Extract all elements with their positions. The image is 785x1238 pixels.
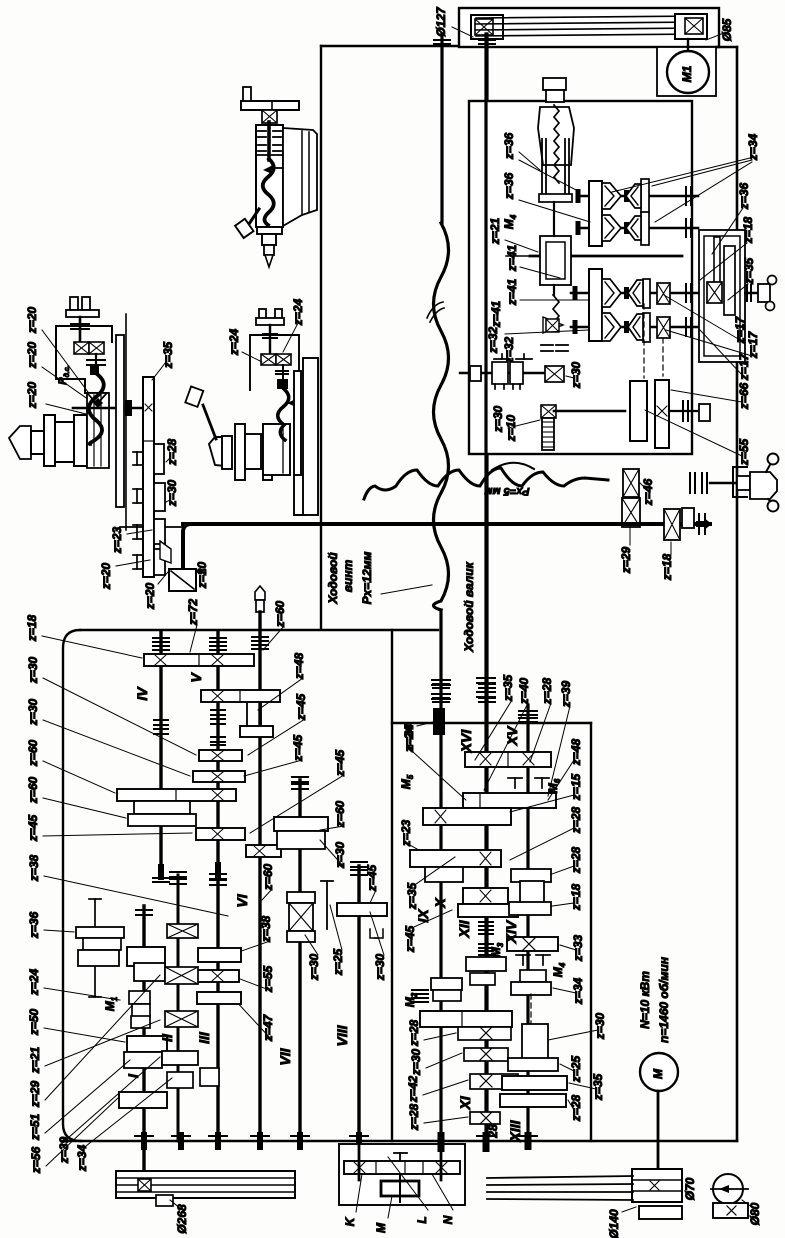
svg-text:z=45: z=45 [291, 734, 305, 762]
head2 worm squiggle overlay [278, 389, 289, 440]
svg-text:z=24: z=24 [27, 968, 41, 996]
gear z28 with bearing [133, 451, 142, 453]
lead screw wavy section [434, 223, 449, 610]
clutch X on VII [287, 892, 315, 903]
pulley d70 [632, 1169, 682, 1202]
gear bars XI with X [458, 1027, 511, 1040]
fork crossbar [539, 194, 572, 202]
M2 cluster IX [431, 978, 462, 990]
gear z34 XV [520, 970, 546, 982]
apron gears [714, 237, 720, 283]
svg-text:XI: XI [457, 1095, 473, 1110]
svg-text:z=36: z=36 [502, 172, 516, 200]
svg-text:n=1460 об/мин: n=1460 об/мин [657, 956, 671, 1043]
tool head base plate [257, 227, 282, 234]
svg-text:z=35: z=35 [591, 1073, 605, 1101]
svg-text:z=28: z=28 [569, 806, 583, 834]
motor M1 shaft [687, 39, 689, 51]
svg-text:N: N [441, 1215, 455, 1224]
shaft IX into apron [440, 1141, 443, 1180]
svg-text:z=30: z=30 [593, 1012, 607, 1040]
speed gearbox rounded frame [80, 629, 438, 631]
z55 z66 shaft right [669, 410, 697, 412]
svg-text:z=20: z=20 [99, 562, 113, 590]
svg-text:XII: XII [456, 919, 472, 938]
gear z35 XIII [502, 1076, 567, 1090]
gear z25 XIII [508, 1058, 558, 1071]
svg-text:z=23: z=23 [399, 819, 413, 847]
blob XVI below [483, 1132, 490, 1152]
svg-text:z=34: z=34 [746, 133, 760, 161]
lead screw top end bearing [434, 39, 450, 41]
lead screw lower section / shaft IX [439, 610, 442, 1172]
svg-text:z=29: z=29 [619, 546, 633, 574]
gear bar5 wide IV-V [117, 789, 236, 801]
svg-text:z=38: z=38 [259, 915, 273, 943]
svg-text:z=60: z=60 [273, 600, 287, 628]
svg-text:z=33: z=33 [571, 934, 585, 962]
svg-text:II: II [159, 1033, 175, 1042]
spindle spring zigzag [554, 105, 559, 183]
shaft VII [292, 776, 308, 778]
gear z55 tall [630, 381, 647, 441]
step blocks IV [134, 801, 190, 814]
svg-text:z=18: z=18 [660, 553, 674, 581]
tall block XIII [522, 1024, 548, 1059]
gear bar6 V [196, 828, 245, 840]
tool head body [256, 125, 283, 227]
clutch A left half with bar [641, 179, 649, 213]
svg-text:z=29: z=29 [28, 1080, 42, 1108]
svg-text:z=21: z=21 [28, 1046, 42, 1074]
feed rod [479, 39, 495, 41]
blob XV below [525, 1132, 532, 1150]
step blocks IX [425, 867, 463, 882]
svg-text:M1: M1 [680, 65, 694, 82]
spindle cone [9, 426, 31, 459]
wide bar below [458, 904, 518, 917]
pulley d85 [675, 14, 707, 39]
tool head side handle [249, 209, 259, 224]
svg-text:z=28: z=28 [407, 1019, 421, 1047]
gear bar z72 on IV-V [144, 654, 254, 666]
shaft XV [519, 710, 537, 712]
long gear block bar upper [589, 181, 602, 246]
KMLN bold block [381, 1181, 419, 1196]
shaft V / III [216, 632, 219, 1141]
svg-text:z=32: z=32 [486, 326, 500, 354]
shaft II clutch gears [167, 924, 198, 938]
shaft XVI [484, 34, 487, 1141]
tool head clutch rows [258, 130, 266, 132]
machine outline bottom edge [63, 1140, 737, 1143]
shaft III gear cluster [198, 948, 241, 962]
KMLN gear bar [344, 1161, 460, 1174]
KMLN tee [394, 1152, 407, 1154]
svg-text:z=28: z=28 [569, 846, 583, 874]
svg-text:N=10 кВт: N=10 кВт [638, 971, 652, 1029]
worm squiggle [89, 374, 104, 444]
svg-text:z=47: z=47 [261, 1013, 275, 1042]
z48 block [246, 702, 248, 726]
head2 lever [203, 405, 216, 439]
head2 right plate [294, 371, 301, 475]
svg-text:M: M [374, 1222, 388, 1233]
svg-text:z=45: z=45 [365, 864, 379, 892]
stem below clutch [95, 354, 97, 372]
head2 worm squiggle [278, 389, 289, 440]
spindle flange stack [31, 431, 44, 454]
svg-text:z=36: z=36 [737, 182, 751, 210]
svg-text:z=35: z=35 [501, 674, 515, 702]
tool head screw shaft [267, 122, 271, 160]
bevel box z20 bottom [169, 569, 196, 591]
svg-text:z=15: z=15 [569, 773, 583, 801]
svg-text:z=60: z=60 [261, 863, 275, 891]
gear bar z45 IX [410, 850, 501, 867]
svg-text:z=55: z=55 [737, 438, 751, 466]
head2 stem [269, 325, 271, 355]
head2 frame [250, 335, 299, 390]
svg-text:X: X [432, 897, 448, 909]
bearings above z24 [433, 683, 449, 685]
svg-text:z=34: z=34 [75, 1144, 89, 1172]
rack bar [116, 335, 124, 507]
tool head clutch X [262, 110, 277, 123]
bottom bearing blobs [141, 1132, 147, 1150]
svg-text:z=30: z=30 [333, 841, 347, 869]
svg-text:VIII: VIII [334, 1024, 350, 1046]
wide bar XI [420, 1011, 512, 1027]
svg-text:z=10: z=10 [504, 414, 518, 442]
svg-text:z=20: z=20 [143, 582, 157, 610]
blob IX at line [438, 1132, 445, 1152]
lead screw break mark [427, 302, 443, 318]
svg-text:Ходовой: Ходовой [326, 552, 340, 605]
svg-text:z=24: z=24 [291, 298, 305, 326]
clutch D left half [643, 313, 650, 342]
gears on IX [423, 808, 511, 825]
cross shaft wavy [364, 468, 608, 499]
rack z35 bar [143, 377, 154, 577]
shaft II [170, 871, 186, 873]
head2 base plate [263, 424, 290, 475]
svg-text:z=66: z=66 [737, 382, 751, 410]
svg-text:z=30: z=30 [409, 1048, 423, 1076]
label z30 z10 leaders [508, 420, 540, 428]
head2 bracket [259, 309, 266, 319]
shaft VIII into apron [358, 1141, 361, 1180]
motor M circle [640, 1053, 678, 1091]
gear z29 [622, 498, 640, 527]
spring zigzag lower [553, 295, 559, 323]
motor M shaft [657, 1091, 660, 1169]
svg-text:z=38: z=38 [27, 854, 41, 882]
gear bar z45 on VIII [337, 903, 387, 916]
shaft VIII [351, 861, 367, 863]
gear z30 with bearing [133, 488, 142, 490]
svg-text:z=30: z=30 [569, 361, 583, 389]
worm output shaft [554, 410, 625, 413]
motor M1 frame [657, 47, 716, 96]
svg-text:Pх=5 мм: Pх=5 мм [484, 485, 529, 497]
svg-text:z=48: z=48 [292, 652, 306, 680]
clutch M6 [508, 777, 522, 779]
VI block z60 z30 [274, 817, 328, 831]
clutch B left half with bar [641, 212, 649, 245]
svg-text:III: III [196, 1031, 212, 1044]
svg-text:z=35: z=35 [405, 882, 419, 910]
svg-text:z=41: z=41 [505, 244, 519, 272]
svg-text:z=72: z=72 [186, 598, 200, 626]
black gear z24 on lead screw [433, 708, 445, 735]
svg-text:z=21: z=21 [488, 217, 502, 245]
svg-text:z=25: z=25 [331, 948, 345, 976]
shaft D [571, 326, 710, 329]
break arc on cross shaft [492, 463, 534, 470]
clutch B right half [602, 215, 621, 241]
clutch D right half [602, 313, 621, 341]
shaft B [578, 227, 698, 230]
svg-text:z=20: z=20 [25, 341, 39, 369]
svg-text:XIV: XIV [503, 919, 519, 944]
shaft I gear cluster [127, 947, 165, 966]
svg-text:z=41: z=41 [505, 278, 519, 306]
svg-text:IV: IV [134, 686, 150, 701]
machine outline left vertical [320, 46, 322, 629]
svg-text:z=60: z=60 [26, 739, 40, 767]
leader lines z36 fan [519, 152, 540, 170]
pulley d127 [471, 15, 503, 39]
belt lines [476, 16, 704, 18]
clutch housing left [540, 236, 571, 285]
z33 gear XV [507, 937, 558, 951]
spindle forks [541, 139, 543, 197]
double clutch XX [74, 342, 89, 354]
M4 clutch XV [516, 954, 530, 956]
shaft VI with cap [255, 586, 265, 600]
head2 black pinion [277, 379, 288, 389]
svg-text:z=39: z=39 [57, 1136, 71, 1164]
svg-text:z=36: z=36 [502, 132, 516, 160]
tool head handle bar [241, 101, 299, 110]
gear bar XVI-XV z40 z28 [465, 752, 551, 767]
clutch C left half [643, 279, 650, 308]
cross drive shaft to rack [73, 407, 148, 410]
svg-text:z=56: z=56 [29, 1146, 43, 1174]
belt to d140 [487, 1176, 633, 1178]
pulley d268 [116, 1171, 295, 1198]
headstock inner box [469, 101, 692, 454]
svg-text:z=20: z=20 [195, 561, 209, 589]
chain arrow [696, 518, 712, 530]
feed gearbox frame [391, 630, 393, 1141]
gear bar3 V [199, 750, 242, 761]
svg-text:z=30: z=30 [373, 953, 387, 981]
handwheel [689, 473, 691, 493]
svg-text:z=30: z=30 [26, 656, 40, 684]
svg-text:VII: VII [277, 1047, 293, 1065]
svg-text:винт: винт [341, 559, 355, 592]
svg-text:Pх=12мм: Pх=12мм [360, 551, 374, 604]
tool head wedge [283, 128, 317, 226]
tool head post [243, 87, 251, 101]
z36 idler cluster [94, 899, 96, 997]
svg-text:M: M [651, 1068, 665, 1079]
svg-text:z=35: z=35 [742, 257, 756, 285]
svg-text:Ø140: Ø140 [607, 1209, 621, 1238]
gear z30 XVI [463, 888, 508, 904]
head2 flange stack [222, 436, 232, 469]
svg-text:z=30: z=30 [307, 953, 321, 981]
gear bar below M6 [463, 793, 556, 808]
gear z66 tall [655, 380, 669, 448]
svg-text:Ø268: Ø268 [175, 1204, 189, 1234]
belt housing box top right [459, 8, 719, 47]
svg-text:z=48: z=48 [569, 738, 583, 766]
shaft C [571, 292, 758, 295]
svg-text:z=60: z=60 [26, 776, 40, 804]
bearings top IX XVI [432, 679, 450, 681]
svg-text:XIII: XIII [507, 1119, 523, 1142]
svg-text:VI: VI [234, 893, 250, 907]
svg-text:z=20: z=20 [25, 381, 39, 409]
K M L N apron box [339, 1144, 465, 1205]
clutch X on D [657, 317, 670, 338]
svg-text:z=51: z=51 [28, 1113, 42, 1141]
svg-text:z=18: z=18 [25, 614, 39, 642]
svg-text:z=39: z=39 [559, 680, 573, 708]
svg-text:z=46: z=46 [641, 478, 655, 506]
svg-text:z=28: z=28 [407, 1103, 421, 1131]
svg-text:z=28: z=28 [540, 677, 554, 705]
svg-text:Ø70: Ø70 [683, 1177, 697, 1200]
pulley d140 flange [639, 1206, 682, 1219]
top edge connector to right [716, 46, 737, 48]
cross shaft end bearing [698, 514, 700, 534]
detent wedge [160, 541, 171, 563]
svg-text:z=40: z=40 [517, 677, 531, 705]
shifter rod VII [326, 881, 328, 929]
svg-text:z=32: z=32 [502, 336, 516, 364]
gear z18 on cross shaft [664, 509, 680, 540]
svg-text:z=50: z=50 [27, 1008, 41, 1036]
svg-text:z=30: z=30 [26, 698, 40, 726]
worm z10 [541, 405, 556, 418]
svg-text:z=45: z=45 [294, 693, 308, 721]
svg-text:z=45: z=45 [403, 925, 417, 953]
clutch C right half [602, 279, 621, 307]
tension roller d80 [713, 1174, 743, 1204]
svg-text:z=20: z=20 [25, 306, 39, 334]
svg-text:XVI: XVI [458, 729, 474, 754]
gear z28 XIII [500, 1094, 566, 1107]
tool head quill [262, 234, 276, 245]
gear z46 [623, 469, 639, 497]
svg-text:z=45: z=45 [333, 749, 347, 777]
head2 lower stem [282, 365, 284, 379]
machine outline top edge [321, 45, 460, 47]
bevel funnel [88, 394, 106, 404]
M3 bearings on XVI [479, 921, 493, 923]
svg-text:Ходовой валик: Ходовой валик [462, 561, 476, 652]
left vertical spindle line [553, 202, 555, 236]
gear z20a with bearing [133, 554, 142, 556]
svg-text:z=28: z=28 [165, 438, 179, 466]
shaft IV [159, 632, 162, 874]
bracket top [70, 297, 78, 310]
svg-text:z=36: z=36 [27, 911, 41, 939]
svg-text:z=42: z=42 [406, 1075, 420, 1103]
dashed gear links [643, 304, 645, 378]
head housing [56, 326, 112, 393]
svg-text:z=34: z=34 [571, 977, 585, 1005]
spindle taper body [538, 107, 574, 165]
cross shaft line y524 [120, 526, 183, 528]
right gears z28 z18 [511, 869, 551, 882]
svg-text:z=30: z=30 [165, 479, 179, 507]
black pinion [90, 364, 99, 375]
elbow to bevel z20 [183, 524, 191, 569]
clutch X on C [657, 283, 670, 304]
gear bar4 V [193, 771, 245, 782]
gear bar7 VI [246, 845, 281, 857]
nested apron box [699, 230, 745, 362]
bearing under clutch [541, 344, 553, 346]
motor M1 [667, 51, 709, 93]
gear z23 with bearing [133, 524, 142, 526]
bracket stem [79, 317, 82, 342]
svg-text:z=30: z=30 [491, 405, 505, 433]
long thin guide line [125, 314, 127, 530]
gears mid XVI [466, 957, 506, 971]
machine outline right vertical [736, 47, 739, 1141]
chuck stack [543, 78, 566, 90]
head2 cone [209, 437, 224, 466]
shaft I [142, 906, 145, 1175]
svg-text:z=24: z=24 [227, 328, 241, 356]
clutch A right half [602, 183, 621, 209]
svg-text:z=60: z=60 [333, 800, 347, 828]
svg-text:z=24: z=24 [402, 725, 416, 753]
svg-text:Ø127: Ø127 [434, 6, 448, 37]
svg-text:z=41: z=41 [489, 300, 503, 328]
feed reverse cluster z30 [460, 372, 545, 374]
splined center line [530, 255, 682, 258]
svg-text:K: K [343, 1216, 357, 1226]
head2 clutch XX [261, 354, 276, 365]
svg-text:Ø85: Ø85 [720, 18, 734, 41]
chevron clutch with X lower-left [543, 317, 563, 333]
shaft A [578, 195, 698, 198]
svg-text:z=28: z=28 [569, 1094, 583, 1122]
svg-text:L: L [415, 1216, 429, 1223]
apron handwheel [758, 284, 770, 302]
svg-text:z=18: z=18 [569, 883, 583, 911]
svg-text:z=45: z=45 [26, 814, 40, 842]
gear bar2 V z48 [201, 690, 280, 702]
long gear block bar lower [589, 269, 602, 341]
svg-text:z=18: z=18 [741, 216, 755, 244]
svg-text:z=23: z=23 [110, 526, 124, 554]
tool head screw squiggle [263, 159, 274, 225]
bracket marks [370, 929, 378, 938]
